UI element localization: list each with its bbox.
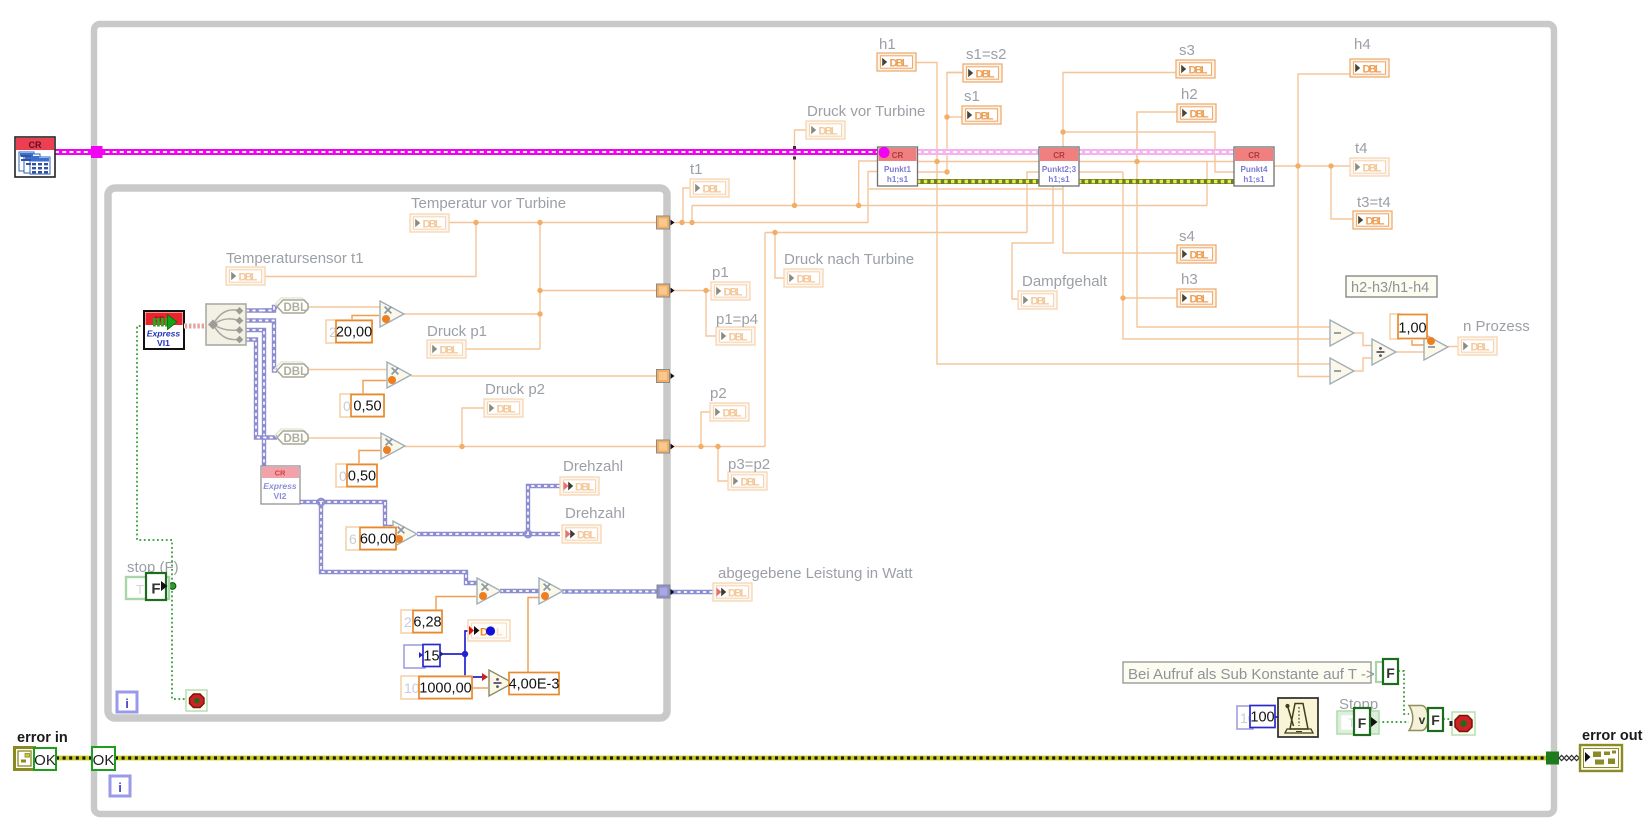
svg-text:OK: OK — [93, 752, 115, 769]
svg-text:DBL: DBL — [703, 184, 722, 196]
label s1 — [964, 88, 980, 105]
wait until next ms multiple — [1278, 698, 1318, 737]
svg-text:DBL: DBL — [239, 272, 258, 284]
svg-text:DBL: DBL — [1366, 216, 1385, 228]
wire s1 feed — [947, 116, 962, 118]
wire M2 output to tunnel C — [411, 375, 657, 377]
wire Punkt2;3 out to Punkt4 y161 — [1078, 161, 1207, 163]
wire stop constant to junction — [167, 585, 172, 587]
svg-text:4,00E-3: 4,00E-3 — [509, 677, 560, 693]
junction G1 — [1060, 129, 1065, 134]
svg-text:p1: p1 — [712, 264, 729, 281]
terminal Drehzahl 1 — [560, 477, 599, 495]
tunnel B — [657, 284, 670, 297]
label Temperatur vor Turbine — [411, 195, 566, 212]
subVI Punkt4 — [1234, 147, 1274, 186]
label Stopp — [1339, 696, 1378, 713]
svg-text:Express: Express — [263, 481, 297, 491]
svg-text:Druck vor Turbine: Druck vor Turbine — [807, 103, 925, 120]
junction F3 — [944, 114, 949, 119]
constant 60,00 — [346, 527, 396, 550]
wire Druck p1 feed — [466, 348, 540, 350]
error in control — [15, 748, 35, 770]
wire Stopp terminal to Or gate — [1378, 721, 1409, 723]
svg-text:Punkt1: Punkt1 — [884, 165, 911, 174]
wire Punkt4 out1 to h4 — [1273, 74, 1350, 166]
terminal h1 — [877, 53, 916, 71]
svg-text:error out: error out — [1582, 728, 1643, 744]
wire dyn wire junction to M5 — [321, 502, 477, 583]
wire crossing ticks on cluster wire — [793, 146, 796, 160]
wire error zigzag to error out — [1559, 755, 1579, 760]
function divide D2 — [1372, 339, 1396, 365]
svg-text:DBL: DBL — [1031, 296, 1050, 308]
terminal s4 — [1177, 245, 1216, 263]
junction E3 — [856, 203, 861, 208]
junction E1 — [772, 230, 777, 235]
wire riser x1063 s3 — [1063, 73, 1176, 254]
svg-text:DBL: DBL — [575, 482, 594, 494]
inc dec marks on 15 — [419, 651, 444, 658]
conversion bubble DBL 3 — [275, 429, 308, 445]
boolean constant stop (F) — [126, 573, 169, 600]
terminal p1 — [711, 282, 750, 300]
terminal s1=s2 — [963, 64, 1002, 82]
svg-text:Drehzahl: Drehzahl — [565, 505, 625, 522]
junction A1 — [679, 220, 684, 225]
tunnel lavender — [657, 585, 670, 598]
terminal Druck p1 — [427, 340, 466, 358]
wire Punkt1 out2 riser — [917, 73, 963, 173]
label Druck nach Turbine — [784, 251, 914, 268]
label p2 — [710, 385, 727, 402]
wire Druck p2 feed — [462, 408, 484, 447]
wire error wire error-in to loop tunnel — [56, 756, 92, 761]
svg-text:DBL: DBL — [975, 111, 994, 123]
svg-text:CR: CR — [892, 151, 904, 160]
svg-text:s4: s4 — [1179, 228, 1195, 245]
wire tunnel A to t1 riser — [670, 222, 868, 224]
terminal abgegebene Leistung in Watt — [713, 583, 752, 601]
label Drehzahl 1 — [563, 458, 623, 475]
wire Punkt1 input1 riser — [859, 161, 878, 206]
svg-text:DBL: DBL — [423, 219, 442, 231]
constant 6,28 — [401, 610, 442, 633]
terminal t4 — [1350, 158, 1389, 176]
svg-text:DBL: DBL — [797, 274, 816, 286]
boxed label Bei Aufruf als Sub Konstante auf T — [1123, 662, 1375, 683]
wire dynamic data Express VI1 to unbundle — [184, 324, 207, 329]
label h1 — [879, 36, 896, 53]
wire Druck vor Turbine riser — [795, 130, 807, 206]
wire Dampfgehalt chain — [1012, 186, 1053, 299]
svg-text:L: L — [496, 627, 503, 639]
constant 4,00E-3 — [509, 673, 560, 695]
wire error wire across loop bottom — [115, 756, 1548, 761]
svg-text:F: F — [1358, 715, 1367, 731]
subVI Punkt1 — [878, 147, 918, 186]
wire bubble1 to multiply M1 — [308, 306, 380, 308]
junction D1 — [698, 444, 703, 449]
terminal Druck nach Turbine — [784, 269, 823, 287]
terminal Temperatur vor Turbine — [410, 214, 449, 232]
label h3 — [1181, 271, 1198, 288]
label s4 — [1179, 228, 1195, 245]
svg-text:0,50: 0,50 — [348, 469, 376, 485]
svg-text:h1: h1 — [879, 36, 896, 53]
junction H3 — [1328, 163, 1333, 168]
boolean terminal Stopp — [1337, 708, 1379, 735]
wire dyn wire unbundle out4 — [246, 340, 277, 438]
junction D3 — [459, 444, 464, 449]
junction F1 — [934, 159, 939, 164]
wire tunnel D line outside — [670, 446, 765, 448]
wire Temperatur vor Turbine to tunnel A — [449, 222, 657, 224]
svg-text:CR: CR — [1053, 151, 1065, 160]
svg-text:DBL: DBL — [728, 588, 747, 600]
wire sub1 to divide — [1354, 333, 1372, 346]
wire dyn wire junction to M4 — [321, 502, 393, 527]
function multiply M4 — [393, 521, 417, 547]
terminal Temperatursensor t1 — [226, 267, 265, 285]
boolean constant F — [1376, 659, 1398, 684]
conversion bubble DBL 1 — [275, 298, 308, 314]
wire dyn wire unbundle out2 — [246, 321, 277, 371]
junction EVI2 output — [318, 499, 325, 506]
svg-text:h1;s1: h1;s1 — [887, 175, 909, 184]
tunnel A — [657, 216, 670, 229]
wire constant 1000,00 to divide — [472, 687, 488, 689]
junction blue — [462, 651, 468, 657]
svg-text:h1;s1: h1;s1 — [1243, 175, 1265, 184]
svg-text:DBL: DBL — [1190, 250, 1209, 262]
svg-text:F: F — [1431, 712, 1440, 728]
svg-text:Punkt2;3: Punkt2;3 — [1042, 165, 1077, 174]
express VI Express VI1 — [144, 311, 184, 349]
wire Or gate to loop condition — [1443, 718, 1452, 720]
label p1 — [712, 264, 729, 281]
wire tunnel B feed — [540, 290, 657, 292]
wire constant 6,28 to M5 — [436, 597, 476, 611]
constant 15 — [404, 645, 440, 669]
svg-text:v: v — [1419, 713, 1426, 727]
svg-text:DBL: DBL — [440, 345, 459, 357]
wire error dotted from Express VI1 — [137, 326, 186, 699]
svg-text:Druck p2: Druck p2 — [485, 381, 545, 398]
magenta input dot on Punkt1 — [879, 147, 890, 158]
wire h1 riser to subtract S2 — [937, 162, 1330, 365]
terminal DBL dynamic — [468, 620, 510, 641]
terminal h4 — [1350, 59, 1389, 77]
wire s4 feed — [1063, 252, 1177, 254]
constant 0,50 no1 — [340, 394, 384, 417]
svg-text:s1=s2: s1=s2 — [966, 46, 1006, 63]
svg-text:Dampfgehalt: Dampfgehalt — [1022, 273, 1108, 290]
svg-text:Bei Aufruf als Sub Konstante a: Bei Aufruf als Sub Konstante auf T -> — [1128, 666, 1375, 683]
label Dampfgehalt — [1022, 273, 1108, 290]
junction B1 — [473, 220, 478, 225]
wire h132 wire — [1063, 132, 1235, 172]
wire long wire y189 — [869, 188, 1063, 190]
svg-text:T: T — [136, 582, 144, 597]
wire riser to W205 — [691, 206, 693, 223]
label Druck vor Turbine — [807, 103, 925, 120]
junction A2 — [689, 220, 694, 225]
svg-text:DBL: DBL — [1363, 163, 1382, 175]
svg-text:h1;s1: h1;s1 — [1048, 175, 1070, 184]
wire Punkt1 out1 to h1 — [917, 161, 937, 163]
function multiply M2 — [387, 362, 411, 388]
label p3=p2 — [728, 456, 770, 473]
wire constant 0,50 no1 to M2 — [363, 381, 386, 395]
wire M3 output to tunnel D — [405, 446, 657, 448]
wire dyn wire M6 to tunnel — [562, 589, 657, 593]
svg-text:Druck p1: Druck p1 — [427, 323, 487, 340]
terminal p1=p4 — [716, 327, 755, 345]
svg-text:1000,00: 1000,00 — [419, 681, 471, 697]
svg-text:10: 10 — [404, 680, 420, 696]
subVI Punkt2;3 — [1039, 147, 1079, 186]
svg-text:F: F — [1386, 665, 1395, 681]
tunnel D — [657, 440, 670, 453]
svg-text:DBL: DBL — [729, 332, 748, 344]
junction B2 — [537, 220, 542, 225]
constant 0,50 no2 — [336, 464, 377, 487]
junction H2 — [1295, 163, 1300, 168]
iteration terminal outer — [110, 776, 130, 796]
label n Prozess — [1463, 318, 1530, 335]
wire cluster wire Punkt1 to Punkt2;3 (pale) — [917, 149, 1040, 155]
terminal h2 — [1177, 104, 1216, 122]
wire dyn wire bubble1 feed — [262, 307, 277, 311]
label error out — [1582, 728, 1643, 744]
wire s1=s2 feed — [947, 72, 963, 74]
function multiply M5 — [477, 578, 501, 604]
terminal s1 — [962, 106, 1001, 124]
wire long wire y205 — [692, 205, 1207, 207]
boolean indicator F at or output — [1428, 708, 1443, 731]
svg-text:Druck nach Turbine: Druck nach Turbine — [784, 251, 914, 268]
label stop (F) — [127, 559, 179, 576]
label Temperatursensor t1 — [226, 250, 364, 267]
wire error wire Punkt1 to Punkt2;3 — [917, 179, 1040, 184]
wire cluster wire Punkt2;3 to Punkt4 (pale) — [1078, 149, 1235, 155]
svg-text:CR: CR — [29, 140, 42, 150]
wire dyn wire unbundle out1 — [246, 308, 274, 312]
svg-text:i: i — [125, 696, 129, 711]
svg-text:1,00: 1,00 — [1398, 321, 1426, 337]
junction H1 — [1134, 159, 1139, 164]
wire cluster wire from CR table constant — [55, 149, 881, 155]
svg-text:DBL: DBL — [284, 366, 308, 378]
tunnel OK on loop border — [92, 747, 115, 770]
function multiply M1 — [380, 301, 404, 327]
boxed label h2-h3/h1-h4 — [1346, 276, 1437, 297]
svg-text:CR: CR — [275, 469, 286, 478]
wire t1 terminal feed — [683, 188, 690, 223]
or function — [1409, 706, 1428, 731]
junction C1 — [703, 288, 708, 293]
inner frame border — [108, 188, 667, 718]
svg-text:DBL: DBL — [284, 302, 308, 314]
tunnel magenta on loop border — [91, 146, 103, 158]
svg-text:t3=t4: t3=t4 — [1357, 194, 1391, 211]
wire riser x1207 Punkt4 in1 — [1207, 162, 1235, 206]
wire constant 4,00E-3 to M6 — [528, 598, 542, 673]
svg-text:DBL: DBL — [497, 404, 516, 416]
wire sub2 to divide — [1354, 358, 1372, 371]
wire Druck nach Turbine feed — [775, 233, 784, 279]
svg-text:h3: h3 — [1181, 271, 1198, 288]
error out indicator — [1580, 745, 1622, 771]
wire p1=p4 feed — [706, 291, 716, 337]
terminal t3=t4 — [1353, 211, 1392, 229]
iteration terminal inner — [117, 692, 137, 712]
wire bubble2 to multiply M2 — [308, 369, 387, 371]
wire riser x1027 to Punkt2;3 — [1027, 172, 1040, 233]
terminal Druck vor Turbine — [806, 121, 845, 139]
wire I32 100 to wait — [1275, 716, 1278, 718]
svg-text:abgegebene Leistung in Watt: abgegebene Leistung in Watt — [718, 565, 913, 582]
constant 220,00 — [326, 320, 372, 343]
terminal p3=p2 — [728, 472, 767, 490]
label t1 — [690, 161, 703, 178]
wire dyn wire tunnel to indicator — [671, 590, 713, 594]
svg-text:0,50: 0,50 — [353, 399, 381, 415]
wire dyn wire M4 output — [417, 532, 560, 536]
svg-text:DBL: DBL — [1189, 65, 1208, 77]
svg-text:h4: h4 — [1354, 36, 1371, 53]
wire constant 220 to M1 — [352, 316, 379, 321]
terminal Druck p2 — [484, 399, 523, 417]
junction F2 — [944, 169, 949, 174]
svg-text:6: 6 — [349, 531, 357, 547]
svg-text:0: 0 — [343, 398, 351, 414]
function divide D1 — [489, 670, 513, 696]
svg-text:n Prozess: n Prozess — [1463, 318, 1530, 335]
terminal n Prozess — [1458, 337, 1497, 355]
CR table constant icon — [15, 137, 55, 177]
wire bubble3 to multiply M3 — [308, 437, 381, 439]
label Druck p2 — [485, 381, 545, 398]
tunnel output nubs — [671, 220, 675, 596]
split signals function — [206, 304, 246, 345]
express VI Express VI2 — [261, 466, 300, 504]
svg-text:i: i — [118, 780, 122, 795]
label abgegebene Leistung — [718, 565, 913, 582]
wire Temperatursensor t1 feed — [265, 222, 476, 277]
wire t4 feed — [1298, 165, 1350, 167]
wire p2 riser to y232 — [764, 233, 766, 447]
wire p2 feed — [701, 412, 710, 447]
wire Punkt1 out1 to Punkt2;3 — [937, 161, 1040, 163]
terminal p2 — [710, 403, 749, 421]
boolean OK box 1 — [34, 748, 56, 770]
svg-text:VI2: VI2 — [274, 491, 287, 501]
junction B3 — [537, 288, 542, 293]
label h2 — [1181, 86, 1198, 103]
inner stop terminal — [186, 690, 207, 711]
svg-text:p1=p4: p1=p4 — [716, 311, 758, 328]
svg-text:t4: t4 — [1355, 140, 1368, 157]
svg-text:CR: CR — [1248, 151, 1260, 160]
svg-text:100: 100 — [1250, 710, 1274, 726]
svg-text:Drehzahl: Drehzahl — [563, 458, 623, 475]
wire p3=p2 feed — [718, 447, 728, 482]
wire constant 1,00 to sub3 — [1412, 340, 1424, 345]
terminal s3 — [1176, 60, 1215, 78]
wire h1 feed riser — [916, 63, 937, 162]
terminal h3 — [1177, 289, 1216, 307]
wire dyn wire M5 to M6 — [500, 589, 539, 593]
svg-text:Temperatur vor Turbine: Temperatur vor Turbine — [411, 195, 566, 212]
wire h3 feed — [1123, 297, 1177, 299]
svg-text:error in: error in — [17, 730, 68, 746]
wire tunnel B to p1 — [670, 290, 711, 292]
junction D2 — [715, 444, 720, 449]
wire vertical x540 M1 distribution — [539, 223, 541, 350]
wire riser x1298 to f4 — [1298, 166, 1330, 377]
svg-text:h2: h2 — [1181, 86, 1198, 103]
svg-text:Punkt4: Punkt4 — [1241, 165, 1268, 174]
svg-text:VI1: VI1 — [157, 338, 170, 348]
wire dyn wire EVI2 to junction — [300, 500, 321, 504]
function multiply M6 — [539, 578, 563, 604]
svg-text:15: 15 — [423, 649, 439, 665]
svg-text:6,28: 6,28 — [413, 615, 441, 631]
svg-text:0: 0 — [339, 468, 347, 484]
wire M1 output — [404, 313, 540, 315]
svg-text:2: 2 — [404, 614, 412, 630]
svg-text:OK: OK — [34, 752, 56, 769]
constant 1000,00 — [401, 676, 472, 699]
svg-text:DBL: DBL — [1190, 109, 1209, 121]
svg-text:t1: t1 — [690, 161, 703, 178]
label t3=t4 — [1357, 194, 1391, 211]
svg-text:DBL: DBL — [890, 58, 909, 70]
junction E2 — [792, 203, 797, 208]
svg-text:60,00: 60,00 — [360, 532, 396, 548]
svg-text:Temperatursensor t1: Temperatursensor t1 — [226, 250, 364, 267]
label p1=p4 — [716, 311, 758, 328]
svg-text:s3: s3 — [1179, 42, 1195, 59]
wire riser x1123 h3 and f2 — [1123, 172, 1330, 339]
wire constant 0,50 no2 to M3 — [359, 451, 380, 465]
wire Punkt2;3 out y172 — [1078, 171, 1123, 173]
label Druck p1 — [427, 323, 487, 340]
svg-text:DBL: DBL — [1363, 64, 1382, 76]
wire I32 15 to junction — [441, 653, 465, 655]
wire long wire y232 — [765, 232, 1027, 234]
function subtract S2 — [1330, 358, 1354, 384]
svg-text:Express: Express — [147, 329, 181, 339]
label t4 — [1355, 140, 1368, 157]
wire error wire Punkt2;3 to Punkt4 — [1078, 179, 1235, 184]
wire F constant to Or gate — [1398, 671, 1409, 714]
wire junction to divide — [465, 654, 486, 677]
svg-text:DBL: DBL — [819, 126, 838, 138]
junction B4 — [537, 311, 542, 316]
svg-text:s1: s1 — [964, 88, 980, 105]
label Drehzahl 2 — [565, 505, 625, 522]
svg-text:F: F — [151, 581, 160, 598]
terminal Dampfgehalt — [1018, 291, 1057, 309]
wire sub3 to n Prozess — [1448, 346, 1458, 348]
wire t3=t4 feed — [1331, 166, 1353, 219]
wire Punkt1 input2 riser — [868, 172, 878, 223]
svg-text:h2-h3/h1-h4: h2-h3/h1-h4 — [1351, 280, 1429, 296]
tunnel error out green — [1546, 752, 1559, 765]
